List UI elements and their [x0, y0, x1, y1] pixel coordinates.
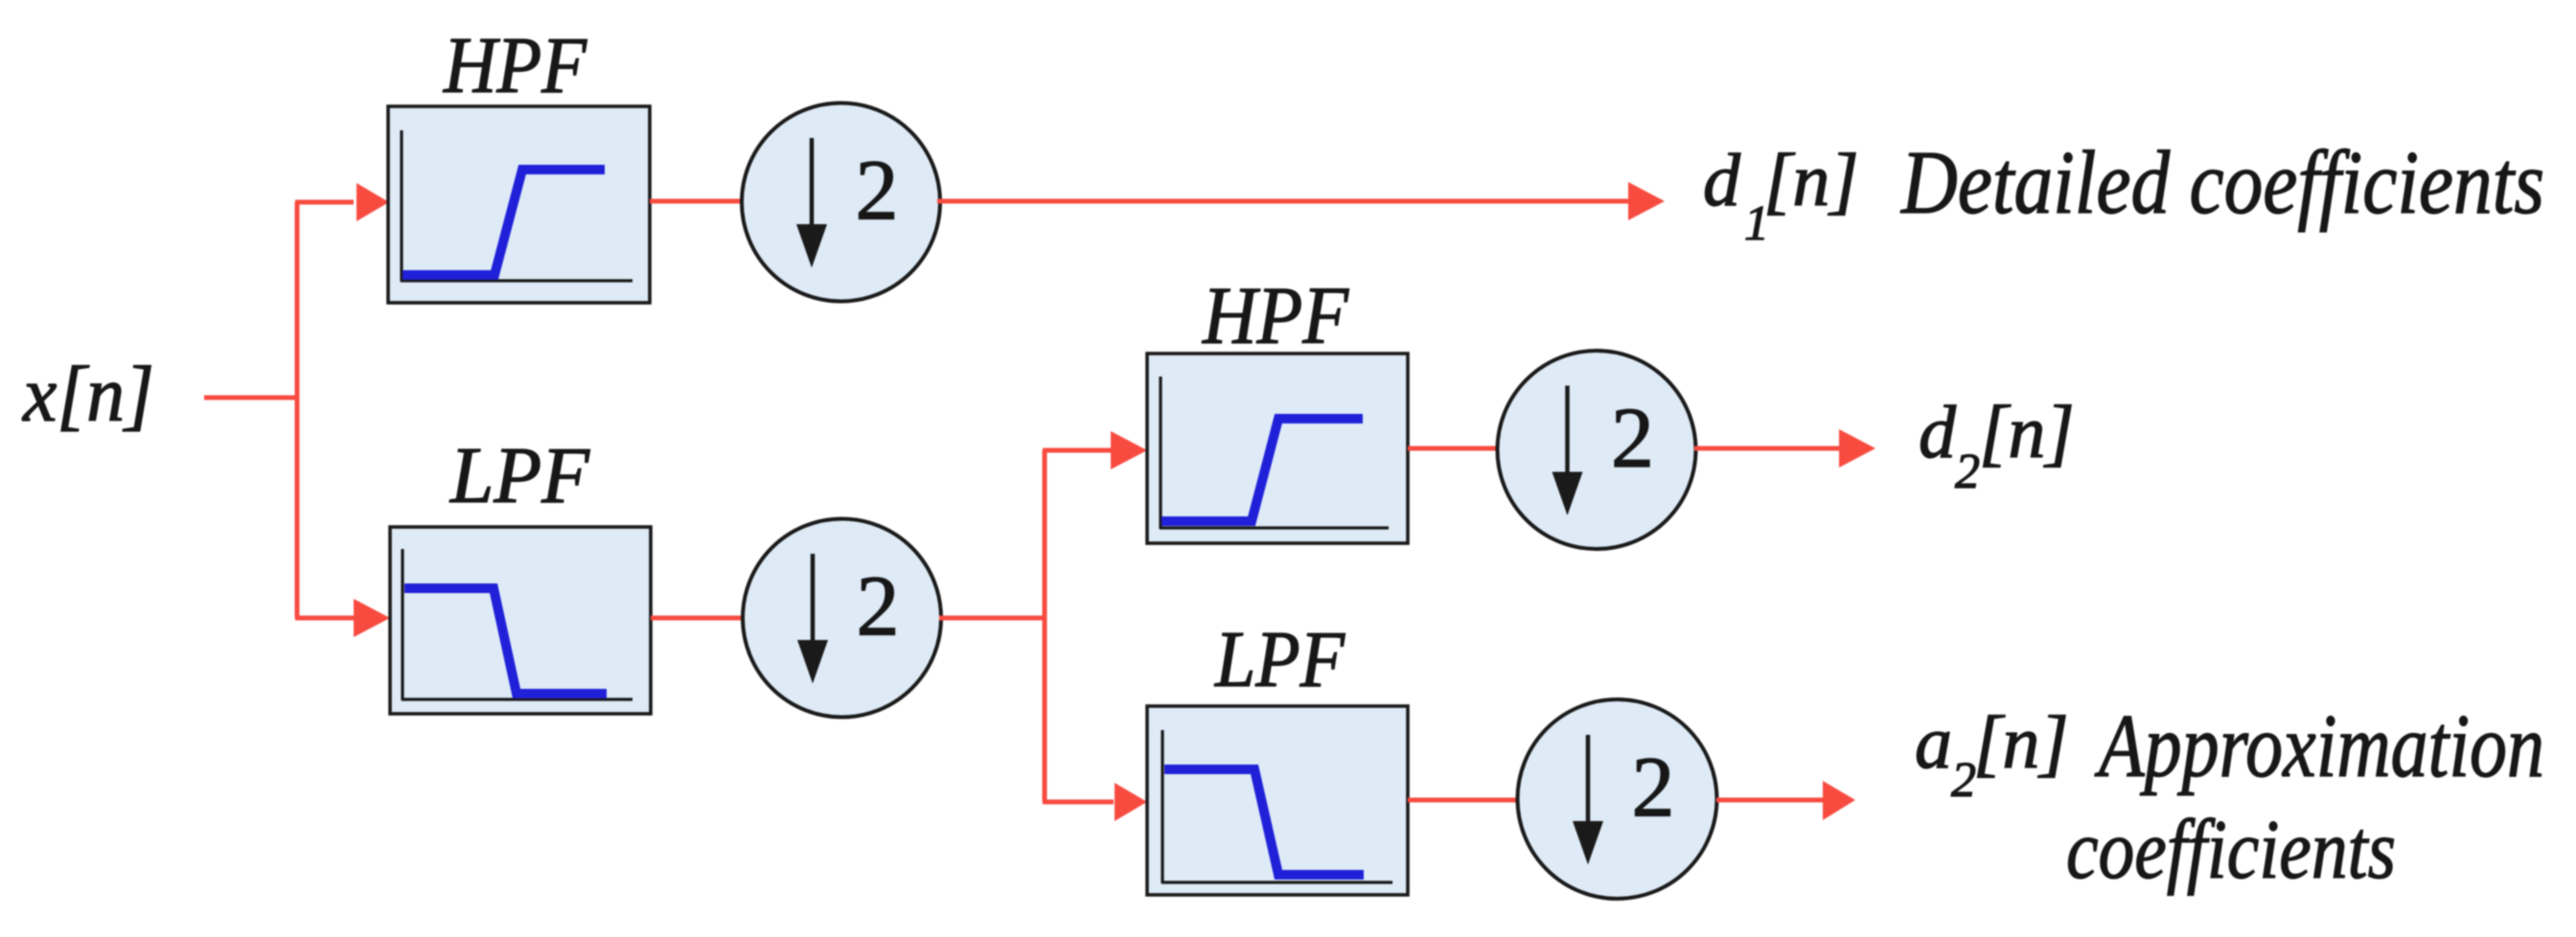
svg-text:2: 2: [1632, 741, 1675, 835]
wire from x[n] to branch junction: [204, 396, 297, 400]
svg-text:2: 2: [856, 144, 899, 239]
svg-text:LPF: LPF: [449, 431, 591, 520]
wire vertical branch level2: [1043, 450, 1047, 802]
svg-text:2: 2: [1611, 391, 1654, 486]
wire HPF1 to downsampler1: [650, 199, 742, 204]
filter HPF1 (high-pass response block): [388, 106, 650, 303]
wire HPF2 to downsampler3: [1408, 446, 1499, 451]
label a2[n]: [1915, 700, 2069, 808]
svg-text:d: d: [1919, 390, 1957, 473]
wire downsampler2 to level2 branch junction: [939, 616, 1045, 621]
svg-text:HPF: HPF: [1202, 269, 1349, 361]
wire LPF1 to downsampler2: [651, 616, 745, 621]
downsampler 2 (down-arrow 2 circle): [743, 519, 941, 718]
svg-text:Approximation: Approximation: [2094, 697, 2544, 796]
svg-text:2: 2: [1955, 445, 1980, 499]
downsampler 1 (down-arrow 2 circle): [742, 103, 940, 302]
wire into HPF1 with arrowhead: [295, 183, 389, 221]
wire into LPF2 with arrowhead: [1043, 783, 1147, 821]
filter LPF2 (low-pass response block): [1147, 706, 1408, 895]
svg-text:Detailed coefficients: Detailed coefficients: [1899, 133, 2544, 233]
svg-text:[n]: [n]: [1763, 138, 1859, 221]
svg-text:x[n]: x[n]: [21, 350, 154, 438]
downsampler 4 (down-arrow 2 circle): [1518, 699, 1717, 899]
wire into HPF2 with arrowhead: [1043, 431, 1147, 469]
svg-text:HPF: HPF: [443, 21, 587, 110]
wire vertical branch level1: [295, 202, 300, 618]
wire downsampler3 to d2 output with arrowhead: [1694, 429, 1875, 468]
filter HPF2 (high-pass response block): [1147, 354, 1408, 543]
svg-text:2: 2: [857, 560, 900, 654]
wire LPF2 to downsampler4: [1408, 798, 1520, 803]
downsampler 3 (down-arrow 2 circle): [1498, 351, 1696, 549]
wire into LPF1 with arrowhead: [295, 599, 390, 637]
svg-text:[n]: [n]: [1979, 390, 2075, 473]
label d2[n]: [1919, 390, 2075, 499]
svg-text:coefficients: coefficients: [2066, 804, 2396, 897]
svg-text:d: d: [1703, 138, 1741, 221]
wire downsampler1 to d1 output with arrowhead: [937, 182, 1665, 220]
svg-text:a: a: [1915, 700, 1952, 784]
svg-text:LPF: LPF: [1214, 615, 1345, 704]
label d1[n]: [1703, 138, 1859, 251]
filter LPF1 (low-pass response block): [390, 527, 651, 714]
svg-text:[n]: [n]: [1973, 700, 2069, 784]
wire downsampler4 to a2 output with arrowhead: [1716, 781, 1855, 820]
